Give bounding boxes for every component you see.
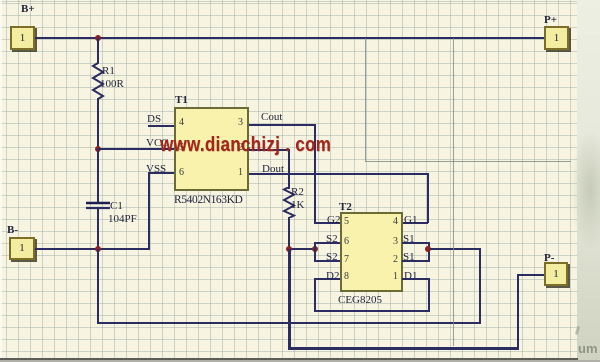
wire B- run [35,248,150,250]
pin label DS [147,114,161,125]
port label B+ [21,4,35,15]
wire S1 riser [479,248,482,324]
pin number 2 T1 [238,143,243,153]
wire R1 top lead [97,38,99,63]
wire D loop right [428,278,430,311]
pin label S2 lower [326,252,338,263]
pin number 5 T1 [179,143,184,153]
pin number 4 T2 [393,217,398,227]
pin label G2 [327,215,340,226]
pin label D2 [326,271,339,282]
wire T1 pin2 stub [249,149,290,151]
resistor R1 [89,61,107,101]
right strip watermark blob [570,130,600,250]
wire P- drop [288,249,291,350]
wire D2 stub [314,278,340,280]
capacitor C1 [85,201,111,210]
pin number 5 T2 [344,217,349,227]
wire S1 link [430,248,480,251]
port label P+ [544,15,557,26]
pin label VCC [146,138,169,149]
wire B- drop [97,249,99,324]
pin label VSS [146,164,166,175]
value 104PF [108,214,137,225]
wire S1 bracket [428,242,430,262]
value 100R [100,79,124,90]
connector P- [544,262,568,286]
ghost line vertical A [365,38,366,161]
label R2 [291,187,304,198]
junction VCC node [95,146,101,152]
port label B- [7,225,18,236]
wire C1 bottom lead [97,209,99,249]
ghost line horizontal [365,161,571,162]
grey watermark curl mark [575,326,580,335]
bottom edge grey strip [0,360,600,362]
junction R2/P- node [286,246,292,252]
wire B+ rail [35,37,544,39]
pin label S1 lower [403,252,415,263]
op-amp U T1 body [174,107,249,191]
pin label D1 [404,271,417,282]
pin number 2 T2 [393,255,398,265]
pin label G1 [404,215,417,226]
junction B- node [95,246,101,252]
pin label S1 upper [403,234,415,245]
junction S2 node [312,246,318,252]
connector B+ [10,26,35,50]
wire VSS stub [148,172,174,174]
pin number 1 T1 [238,168,243,178]
connector P+ [544,26,569,50]
port label P- [544,253,554,264]
wire VCC [98,148,174,150]
wire S2 pin7 stub [314,260,340,262]
wire S1 pin3 stub [402,242,429,244]
wire R2 top lead [288,149,290,189]
wire VSS riser [148,172,150,250]
designator T1 [175,95,188,106]
wire DS stub [148,125,174,127]
bottom edge dark line [0,358,578,360]
wire G2 stub [314,222,340,224]
pin number 7 T2 [344,255,349,265]
transistor T2 body [340,212,403,292]
grey watermark um [578,341,598,356]
watermark www.dianchizj.com [160,134,331,157]
wire S2 pin6 stub [314,242,340,244]
wire D loop bottom [314,310,430,312]
label R1 [102,66,115,77]
junction S1 node [425,246,431,252]
wire Cout drop [314,124,316,224]
wire P- bottom run [289,347,519,350]
right margin strip [577,0,600,362]
wire S2 link [289,248,315,250]
label C1 [110,201,123,212]
wire C1 top lead [97,149,99,202]
pin number 3 T2 [393,237,398,247]
wire Cout run [249,124,315,126]
wire D1 stub [402,278,429,280]
pin number 3 T1 [238,118,243,128]
wire bottom bus B- to S1 [97,322,481,325]
pin number 6 T2 [344,237,349,247]
wire Dout drop [427,173,429,223]
pin number 4 T1 [179,118,184,128]
designator T2 [339,202,352,213]
resistor R2 [280,187,298,218]
left edge sliver [0,0,2,362]
wire R2 bottom lead [288,217,290,249]
ghost line vertical B [453,38,454,346]
wire G1 stub [402,222,428,224]
pin label S2 upper [326,234,338,245]
pin number 6 T1 [179,168,184,178]
part number R5402N163KD [174,195,242,207]
pin number 8 T2 [344,272,349,282]
pin label Dout [262,164,284,175]
pin label Cout [261,112,282,123]
wire R1 bottom lead [97,100,99,149]
wire D loop left [314,278,316,311]
pin number 1 T2 [393,272,398,282]
connector B- [9,237,35,260]
part number CEG8205 [338,295,382,306]
wire P- stub [518,274,544,277]
wire S1 pin2 stub [402,260,429,262]
wire S2 bracket [314,242,316,262]
value 1K [291,200,304,211]
wire P- riser [517,274,520,350]
junction B+/R1 [95,35,101,41]
wire Dout run [249,173,429,175]
